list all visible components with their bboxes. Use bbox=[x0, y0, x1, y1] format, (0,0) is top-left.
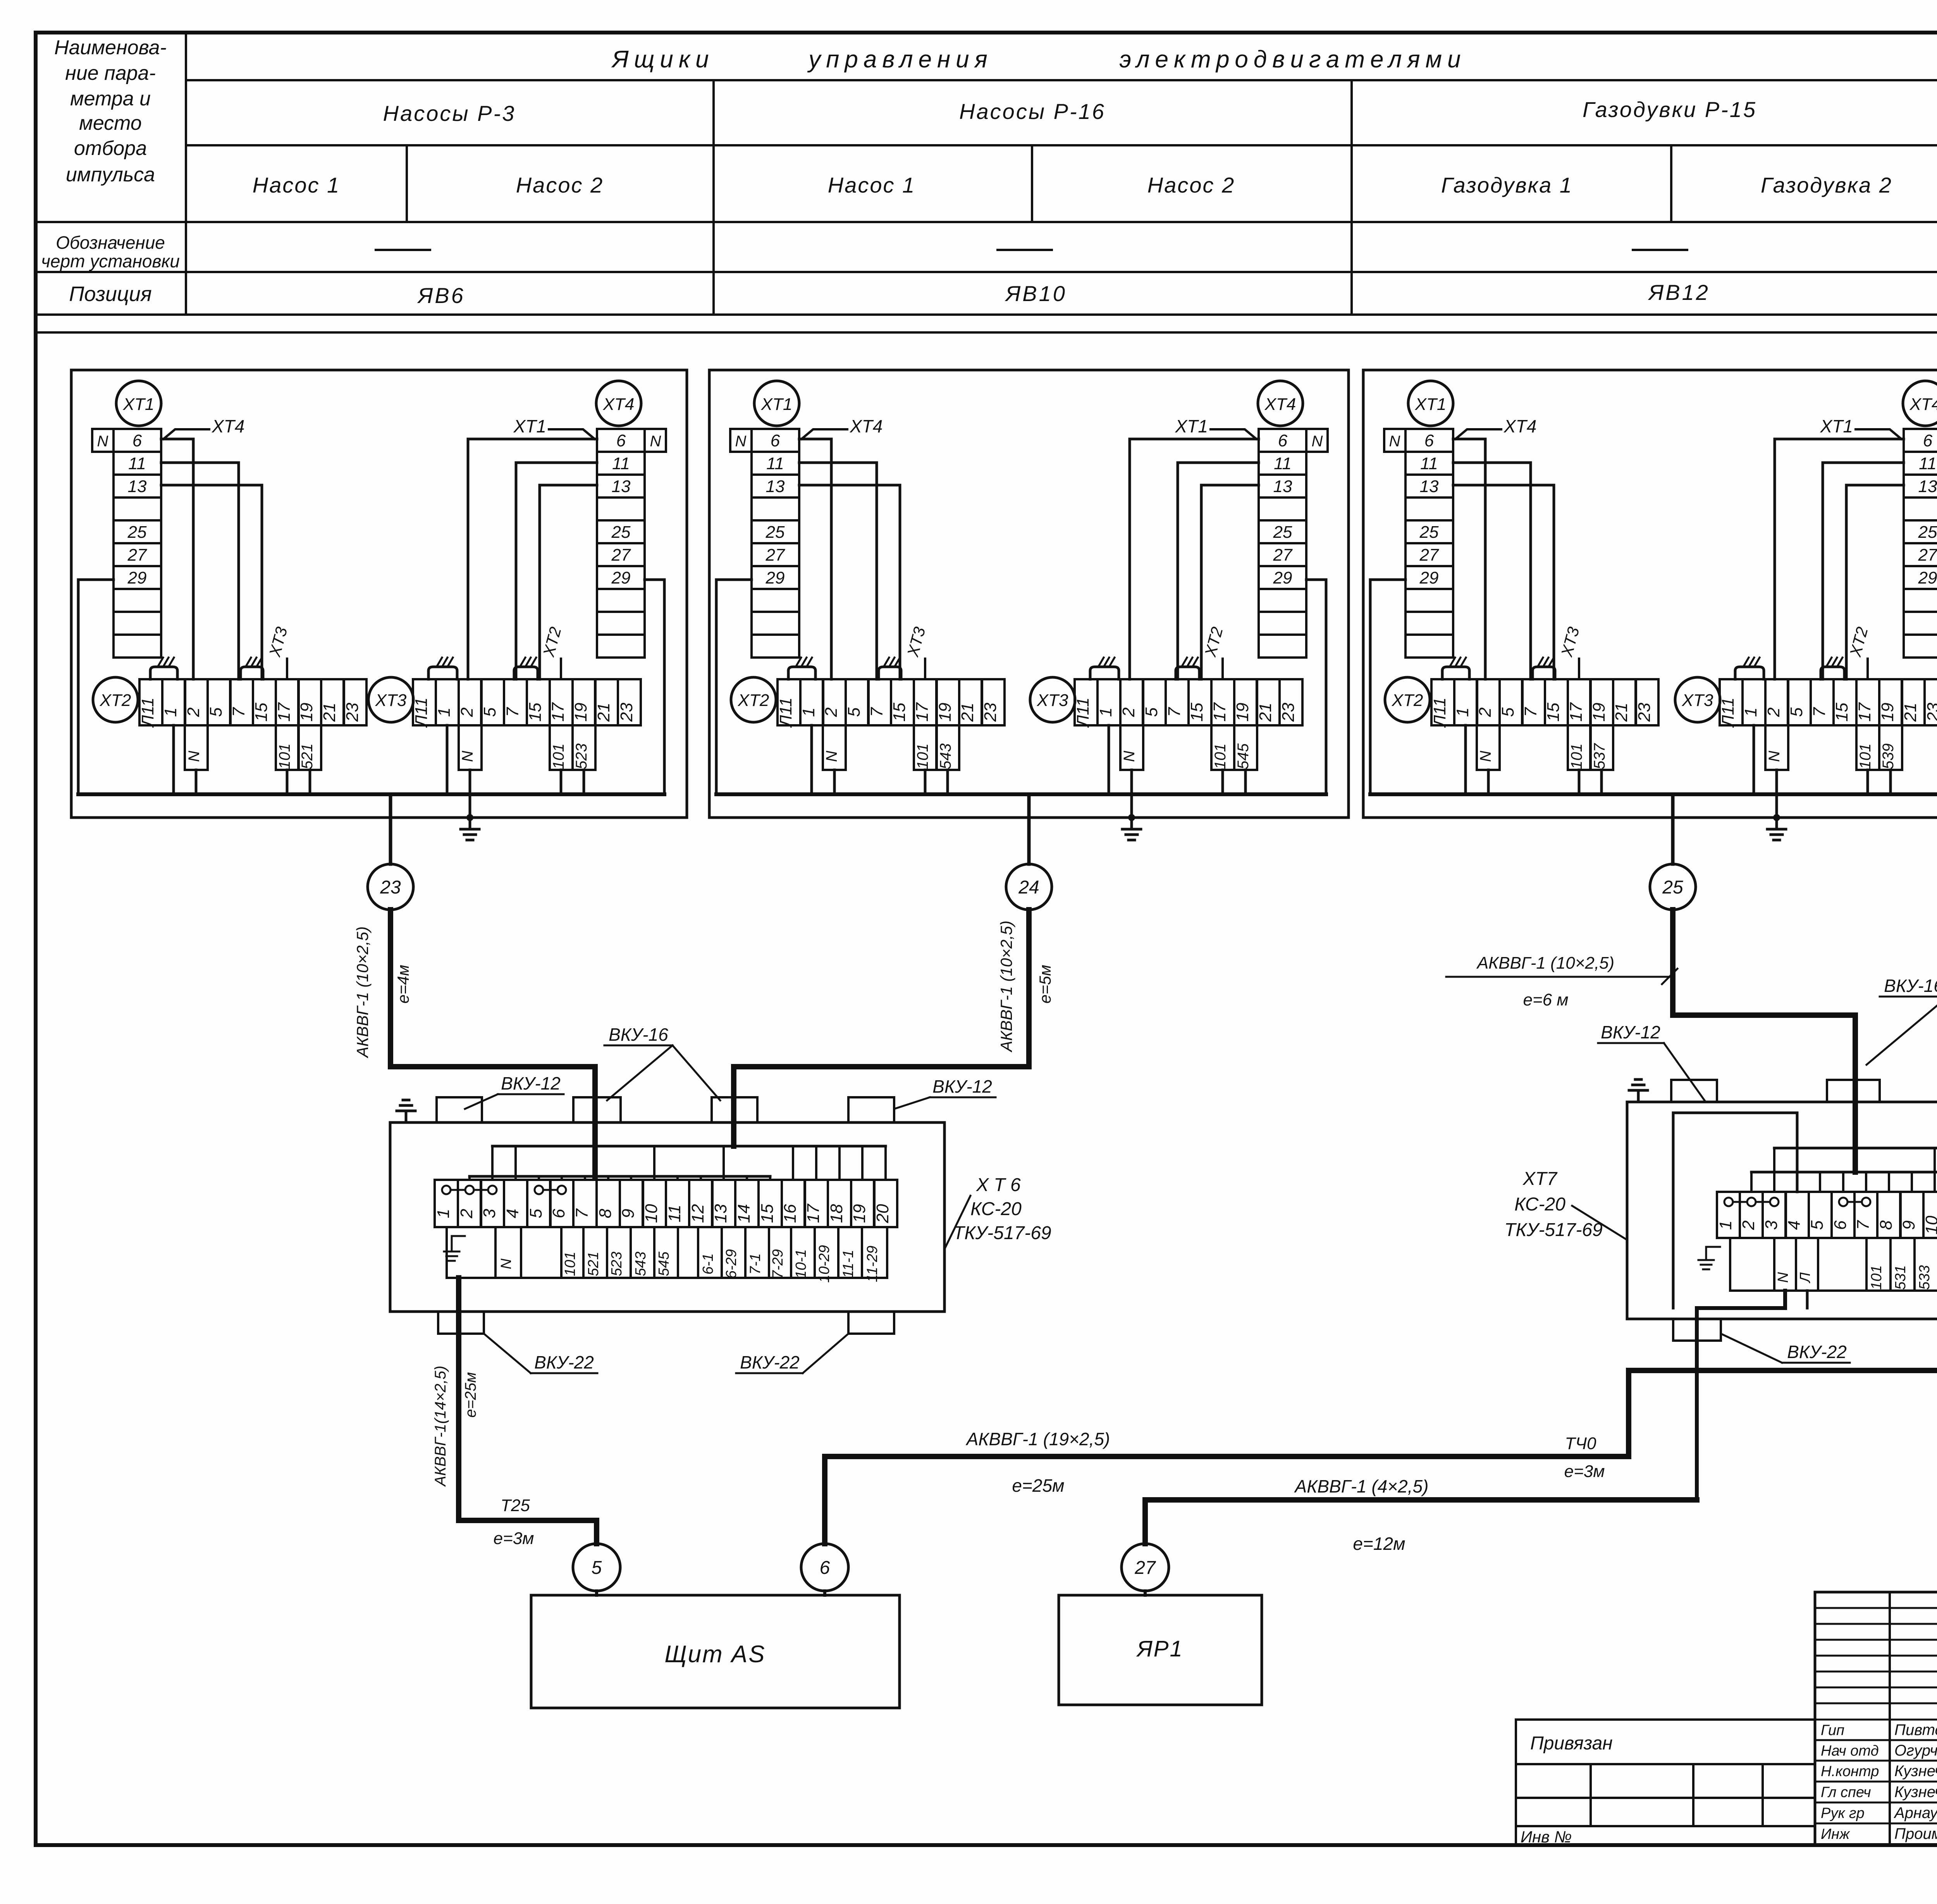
svg-text:27: 27 bbox=[766, 546, 785, 565]
svg-text:7: 7 bbox=[1165, 707, 1184, 717]
svg-text:21: 21 bbox=[1612, 703, 1631, 722]
svg-text:27: 27 bbox=[1134, 1558, 1156, 1578]
svg-text:е=25м: е=25м bbox=[462, 1372, 479, 1418]
svg-text:ХТ4: ХТ4 bbox=[850, 416, 882, 436]
svg-text:15: 15 bbox=[1832, 702, 1851, 721]
svg-text:11: 11 bbox=[766, 454, 784, 473]
svg-text:5: 5 bbox=[1498, 707, 1517, 717]
svg-text:1: 1 bbox=[161, 708, 180, 717]
svg-text:Наименова-: Наименова- bbox=[54, 36, 167, 59]
svg-text:2: 2 bbox=[1764, 708, 1783, 717]
svg-text:N: N bbox=[1389, 433, 1400, 450]
svg-text:импульса: импульса bbox=[66, 164, 155, 186]
svg-text:531: 531 bbox=[1892, 1265, 1909, 1289]
svg-text:7: 7 bbox=[229, 707, 248, 717]
svg-text:7: 7 bbox=[1810, 707, 1829, 717]
svg-text:5: 5 bbox=[592, 1558, 602, 1578]
svg-text:ХТ2: ХТ2 bbox=[1392, 691, 1423, 710]
svg-text:Нач отд: Нач отд bbox=[1821, 1743, 1879, 1759]
svg-text:23: 23 bbox=[1635, 702, 1654, 722]
svg-text:Л11: Л11 bbox=[1719, 697, 1737, 728]
svg-text:6: 6 bbox=[616, 431, 626, 450]
svg-text:8: 8 bbox=[1877, 1220, 1896, 1230]
svg-text:Насос 2: Насос 2 bbox=[1147, 173, 1235, 197]
svg-text:9: 9 bbox=[1899, 1221, 1918, 1230]
svg-text:11: 11 bbox=[1274, 454, 1292, 473]
svg-text:101: 101 bbox=[914, 744, 931, 770]
svg-text:ХТ3: ХТ3 bbox=[1682, 691, 1713, 710]
svg-text:13: 13 bbox=[1273, 477, 1292, 496]
svg-text:КС-20: КС-20 bbox=[970, 1199, 1022, 1219]
svg-text:27: 27 bbox=[1419, 546, 1439, 565]
svg-text:N: N bbox=[1766, 751, 1783, 762]
svg-text:5: 5 bbox=[526, 1209, 545, 1218]
svg-text:ХТ3: ХТ3 bbox=[375, 691, 407, 710]
svg-text:17: 17 bbox=[549, 702, 568, 721]
svg-text:10: 10 bbox=[1922, 1215, 1937, 1234]
svg-text:11: 11 bbox=[1919, 454, 1937, 473]
svg-text:ЯВ6: ЯВ6 bbox=[417, 283, 465, 308]
svg-text:Гл спеч: Гл спеч bbox=[1821, 1784, 1871, 1801]
svg-text:АКВВГ-1(14×2,5): АКВВГ-1(14×2,5) bbox=[432, 1365, 449, 1487]
svg-text:11-29: 11-29 bbox=[864, 1246, 881, 1282]
svg-text:19: 19 bbox=[1878, 703, 1897, 722]
svg-text:Л11: Л11 bbox=[1430, 697, 1449, 728]
svg-text:13: 13 bbox=[612, 477, 631, 496]
svg-text:25: 25 bbox=[1918, 523, 1937, 542]
svg-text:13: 13 bbox=[1420, 477, 1439, 496]
svg-text:ТКУ-517-69: ТКУ-517-69 bbox=[953, 1223, 1051, 1243]
svg-text:19: 19 bbox=[1233, 703, 1252, 722]
svg-text:23: 23 bbox=[1279, 702, 1298, 722]
svg-text:7: 7 bbox=[503, 707, 522, 717]
svg-text:15: 15 bbox=[252, 702, 271, 721]
svg-text:29: 29 bbox=[127, 568, 147, 587]
svg-text:6: 6 bbox=[1278, 431, 1288, 450]
svg-text:101: 101 bbox=[1568, 744, 1585, 770]
svg-text:Газодувки Р-15: Газодувки Р-15 bbox=[1583, 97, 1757, 122]
svg-text:2: 2 bbox=[822, 708, 841, 717]
svg-text:5: 5 bbox=[845, 707, 864, 717]
svg-text:е=5м: е=5м bbox=[1036, 965, 1054, 1004]
svg-text:1: 1 bbox=[1716, 1221, 1735, 1230]
svg-text:ние пара-: ние пара- bbox=[65, 62, 156, 84]
svg-text:2: 2 bbox=[1476, 708, 1495, 717]
svg-text:13: 13 bbox=[766, 477, 785, 496]
svg-text:29: 29 bbox=[1273, 568, 1292, 587]
svg-text:25: 25 bbox=[1419, 523, 1439, 542]
svg-text:1: 1 bbox=[434, 1209, 453, 1218]
svg-text:Л11: Л11 bbox=[776, 697, 795, 728]
svg-text:Л: Л bbox=[1797, 1272, 1813, 1284]
svg-text:5: 5 bbox=[480, 707, 499, 717]
svg-text:ВКУ-12: ВКУ-12 bbox=[1601, 1022, 1660, 1042]
svg-text:ХТ1: ХТ1 bbox=[1820, 416, 1853, 436]
svg-text:17: 17 bbox=[1210, 702, 1229, 721]
svg-text:е=6 м: е=6 м bbox=[1523, 990, 1568, 1009]
svg-text:ХТ3: ХТ3 bbox=[1037, 691, 1068, 710]
svg-text:ВКУ-12: ВКУ-12 bbox=[501, 1073, 561, 1093]
svg-text:N: N bbox=[1121, 751, 1138, 762]
svg-text:7: 7 bbox=[1521, 707, 1540, 717]
svg-text:ВКУ-16: ВКУ-16 bbox=[1884, 976, 1937, 996]
svg-text:ХТ4: ХТ4 bbox=[1909, 395, 1937, 414]
svg-text:7: 7 bbox=[573, 1208, 592, 1218]
svg-text:ТЧ0: ТЧ0 bbox=[1565, 1434, 1597, 1453]
svg-text:Привязан: Привязан bbox=[1530, 1733, 1613, 1754]
svg-text:25: 25 bbox=[1662, 877, 1683, 898]
svg-text:ХТ1: ХТ1 bbox=[123, 395, 155, 414]
svg-text:е=3м: е=3м bbox=[494, 1529, 534, 1548]
svg-text:АКВВГ-1 (4×2,5): АКВВГ-1 (4×2,5) bbox=[1294, 1476, 1429, 1496]
svg-text:6: 6 bbox=[549, 1209, 568, 1218]
svg-text:2: 2 bbox=[457, 1209, 476, 1219]
svg-text:ХТ4: ХТ4 bbox=[1264, 395, 1296, 414]
svg-text:Н.контр: Н.контр bbox=[1821, 1763, 1879, 1780]
svg-text:101: 101 bbox=[562, 1252, 578, 1276]
svg-text:11: 11 bbox=[612, 454, 630, 473]
svg-text:10: 10 bbox=[642, 1204, 661, 1223]
svg-text:101: 101 bbox=[550, 744, 567, 770]
svg-text:13: 13 bbox=[711, 1204, 730, 1223]
svg-text:5: 5 bbox=[1808, 1220, 1827, 1230]
svg-text:ХТ1: ХТ1 bbox=[1415, 395, 1447, 414]
svg-text:13: 13 bbox=[128, 477, 147, 496]
svg-text:15: 15 bbox=[526, 702, 545, 721]
svg-text:КС-20: КС-20 bbox=[1514, 1194, 1565, 1215]
svg-text:4: 4 bbox=[1785, 1221, 1804, 1230]
svg-text:6: 6 bbox=[132, 431, 142, 450]
svg-text:101: 101 bbox=[1868, 1265, 1885, 1289]
svg-text:543: 543 bbox=[633, 1252, 649, 1276]
svg-text:11: 11 bbox=[1420, 454, 1438, 473]
svg-text:7: 7 bbox=[867, 707, 886, 717]
svg-text:17: 17 bbox=[275, 702, 294, 721]
svg-text:N: N bbox=[823, 751, 840, 762]
svg-text:15: 15 bbox=[758, 1204, 777, 1223]
svg-text:521: 521 bbox=[585, 1252, 602, 1276]
svg-text:ВКУ-22: ВКУ-22 bbox=[534, 1352, 594, 1372]
svg-text:5: 5 bbox=[1142, 707, 1161, 717]
svg-text:537: 537 bbox=[1591, 743, 1608, 769]
svg-text:16: 16 bbox=[781, 1204, 800, 1223]
svg-text:е=25м: е=25м bbox=[1012, 1475, 1064, 1496]
svg-text:25: 25 bbox=[766, 523, 785, 542]
svg-text:Обозначение: Обозначение bbox=[56, 232, 165, 253]
svg-text:543: 543 bbox=[937, 744, 954, 770]
svg-text:Пивторак: Пивторак bbox=[1894, 1722, 1937, 1739]
svg-text:Л11: Л11 bbox=[1073, 697, 1092, 728]
svg-text:е=4м: е=4м bbox=[394, 965, 412, 1004]
svg-text:15: 15 bbox=[890, 702, 909, 721]
svg-text:черт установки: черт установки bbox=[41, 251, 180, 271]
svg-text:Х Т 6: Х Т 6 bbox=[976, 1175, 1021, 1195]
svg-text:29: 29 bbox=[766, 568, 785, 587]
svg-text:6: 6 bbox=[820, 1558, 830, 1578]
svg-text:Щит АS: Щит АS bbox=[664, 1641, 766, 1668]
svg-text:21: 21 bbox=[594, 703, 613, 722]
svg-text:АКВВГ-1 (10×2,5): АКВВГ-1 (10×2,5) bbox=[353, 926, 372, 1059]
svg-text:5: 5 bbox=[206, 707, 225, 717]
svg-text:17: 17 bbox=[1855, 702, 1874, 721]
svg-text:15: 15 bbox=[1544, 702, 1563, 721]
svg-text:Инж: Инж bbox=[1821, 1826, 1850, 1842]
svg-text:15: 15 bbox=[1187, 702, 1206, 721]
svg-text:Газодувка 1: Газодувка 1 bbox=[1441, 173, 1573, 197]
svg-text:25: 25 bbox=[611, 523, 631, 542]
svg-text:539: 539 bbox=[1880, 744, 1897, 770]
svg-text:ЯВ10: ЯВ10 bbox=[1005, 281, 1067, 306]
svg-text:2: 2 bbox=[458, 708, 477, 717]
svg-text:Рук гр: Рук гр bbox=[1821, 1805, 1865, 1821]
svg-text:Ящики: Ящики bbox=[611, 46, 714, 73]
svg-text:1: 1 bbox=[799, 708, 818, 717]
svg-text:ХТ4: ХТ4 bbox=[603, 395, 635, 414]
svg-text:21: 21 bbox=[1256, 703, 1275, 722]
svg-text:521: 521 bbox=[299, 744, 316, 770]
svg-text:ЯВ12: ЯВ12 bbox=[1648, 280, 1710, 305]
svg-text:27: 27 bbox=[1918, 546, 1937, 565]
svg-text:1: 1 bbox=[1453, 708, 1472, 717]
svg-text:101: 101 bbox=[276, 744, 293, 770]
svg-text:18: 18 bbox=[827, 1204, 846, 1223]
svg-text:7-1: 7-1 bbox=[747, 1253, 764, 1275]
svg-text:Арнаутова: Арнаутова bbox=[1894, 1804, 1937, 1821]
svg-text:21: 21 bbox=[958, 703, 977, 722]
svg-text:N: N bbox=[459, 751, 476, 762]
svg-text:29: 29 bbox=[611, 568, 631, 587]
svg-text:АКВВГ-1 (10×2,5): АКВВГ-1 (10×2,5) bbox=[997, 921, 1015, 1053]
svg-text:Насос 1: Насос 1 bbox=[253, 173, 340, 197]
svg-text:21: 21 bbox=[1901, 703, 1920, 722]
svg-text:19: 19 bbox=[850, 1204, 869, 1223]
svg-text:13: 13 bbox=[1918, 477, 1937, 496]
svg-text:20: 20 bbox=[873, 1204, 892, 1223]
svg-text:11: 11 bbox=[665, 1205, 684, 1222]
svg-text:6: 6 bbox=[1923, 431, 1933, 450]
svg-text:N: N bbox=[498, 1258, 514, 1269]
svg-text:25: 25 bbox=[1273, 523, 1292, 542]
svg-text:ВКУ-16: ВКУ-16 bbox=[609, 1024, 668, 1045]
svg-text:ХТ2: ХТ2 bbox=[738, 691, 769, 710]
svg-text:19: 19 bbox=[571, 703, 590, 722]
svg-text:N: N bbox=[97, 433, 108, 450]
svg-text:3: 3 bbox=[1762, 1220, 1781, 1230]
svg-text:Газодувка 2: Газодувка 2 bbox=[1761, 173, 1892, 197]
svg-text:523: 523 bbox=[609, 1252, 625, 1276]
svg-text:545: 545 bbox=[656, 1251, 672, 1276]
svg-text:ВКУ-22: ВКУ-22 bbox=[740, 1352, 800, 1372]
svg-text:3: 3 bbox=[480, 1209, 499, 1218]
svg-text:17: 17 bbox=[1567, 702, 1586, 721]
svg-text:АКВВГ-1 (10×2,5): АКВВГ-1 (10×2,5) bbox=[1476, 954, 1614, 973]
svg-text:N: N bbox=[1775, 1272, 1791, 1283]
svg-text:е=3м: е=3м bbox=[1564, 1462, 1605, 1481]
svg-text:1: 1 bbox=[435, 708, 454, 717]
svg-text:12: 12 bbox=[688, 1204, 707, 1223]
svg-text:101: 101 bbox=[1857, 744, 1874, 770]
svg-text:29: 29 bbox=[1419, 568, 1439, 587]
svg-text:6: 6 bbox=[1424, 431, 1434, 450]
svg-text:27: 27 bbox=[611, 546, 631, 565]
svg-text:24: 24 bbox=[1018, 877, 1039, 898]
svg-text:27: 27 bbox=[1273, 546, 1293, 565]
svg-text:ВКУ-22: ВКУ-22 bbox=[1787, 1342, 1847, 1362]
svg-text:2: 2 bbox=[1119, 708, 1138, 717]
svg-text:19: 19 bbox=[297, 703, 316, 722]
svg-text:25: 25 bbox=[127, 523, 147, 542]
svg-text:N: N bbox=[186, 751, 203, 762]
svg-text:11: 11 bbox=[128, 454, 146, 473]
svg-text:19: 19 bbox=[936, 703, 955, 722]
svg-text:10-1: 10-1 bbox=[793, 1249, 809, 1279]
svg-text:9: 9 bbox=[619, 1209, 638, 1218]
svg-text:2: 2 bbox=[1739, 1221, 1758, 1230]
svg-text:101: 101 bbox=[1212, 744, 1229, 770]
svg-text:Огурчов: Огурчов bbox=[1894, 1742, 1937, 1759]
svg-text:ХТ2: ХТ2 bbox=[100, 691, 131, 710]
svg-text:ВКУ-12: ВКУ-12 bbox=[932, 1076, 992, 1097]
svg-text:ЯР1: ЯР1 bbox=[1136, 1636, 1183, 1661]
svg-text:ХТ7: ХТ7 bbox=[1522, 1169, 1558, 1189]
svg-text:Инв №: Инв № bbox=[1521, 1828, 1572, 1846]
svg-text:Кузнечов: Кузнечов bbox=[1894, 1783, 1937, 1801]
svg-text:Насосы Р-16: Насосы Р-16 bbox=[959, 99, 1106, 124]
svg-text:ХТ1: ХТ1 bbox=[513, 416, 546, 436]
svg-text:8: 8 bbox=[596, 1209, 615, 1218]
svg-text:545: 545 bbox=[1235, 743, 1252, 769]
svg-text:Насос 2: Насос 2 bbox=[516, 173, 604, 197]
svg-text:17: 17 bbox=[804, 1203, 823, 1223]
svg-text:Л11: Л11 bbox=[138, 697, 157, 728]
svg-text:Л11: Л11 bbox=[412, 697, 431, 728]
svg-text:523: 523 bbox=[573, 744, 590, 770]
svg-text:Насосы Р-3: Насосы Р-3 bbox=[383, 101, 516, 126]
svg-text:ХТ4: ХТ4 bbox=[1503, 416, 1536, 436]
svg-text:23: 23 bbox=[380, 877, 401, 898]
svg-text:6-1: 6-1 bbox=[700, 1253, 716, 1275]
svg-text:ХТ4: ХТ4 bbox=[212, 416, 244, 436]
svg-text:ХТ1: ХТ1 bbox=[761, 395, 793, 414]
svg-text:Т25: Т25 bbox=[501, 1496, 530, 1515]
svg-text:е=12м: е=12м bbox=[1353, 1534, 1405, 1554]
svg-text:метра и: метра и bbox=[70, 88, 151, 110]
svg-text:17: 17 bbox=[913, 702, 932, 721]
svg-text:N: N bbox=[1312, 433, 1323, 450]
svg-text:место: место bbox=[79, 112, 142, 134]
svg-text:7-29: 7-29 bbox=[770, 1249, 786, 1279]
svg-text:6-29: 6-29 bbox=[723, 1249, 740, 1279]
svg-text:Проимкина: Проимкина bbox=[1894, 1825, 1937, 1842]
svg-text:533: 533 bbox=[1916, 1265, 1933, 1289]
svg-text:23: 23 bbox=[343, 702, 362, 722]
svg-text:N: N bbox=[735, 433, 747, 450]
svg-text:отбора: отбора bbox=[74, 137, 147, 160]
svg-text:10-29: 10-29 bbox=[816, 1245, 833, 1283]
svg-text:Насос 1: Насос 1 bbox=[828, 173, 915, 197]
svg-text:19: 19 bbox=[1590, 703, 1608, 722]
svg-text:14: 14 bbox=[735, 1204, 753, 1223]
svg-text:23: 23 bbox=[1924, 702, 1937, 722]
svg-text:4: 4 bbox=[503, 1209, 522, 1218]
svg-text:N: N bbox=[1477, 751, 1494, 762]
svg-text:6: 6 bbox=[771, 431, 780, 450]
svg-text:ТКУ-517-69: ТКУ-517-69 bbox=[1504, 1220, 1603, 1240]
svg-text:6: 6 bbox=[1831, 1220, 1850, 1230]
svg-text:23: 23 bbox=[981, 702, 1000, 722]
svg-text:управления: управления bbox=[807, 46, 993, 73]
svg-text:N: N bbox=[650, 433, 661, 450]
svg-text:ХТ1: ХТ1 bbox=[1175, 416, 1208, 436]
svg-text:электродвигателями: электродвигателями bbox=[1119, 46, 1466, 73]
svg-text:Кузнечов: Кузнечов bbox=[1894, 1763, 1937, 1780]
svg-text:Гип: Гип bbox=[1821, 1722, 1844, 1739]
svg-text:1: 1 bbox=[1096, 708, 1115, 717]
svg-text:Позиция: Позиция bbox=[69, 282, 151, 306]
svg-text:11-1: 11-1 bbox=[840, 1250, 857, 1278]
svg-text:29: 29 bbox=[1918, 568, 1937, 587]
svg-text:5: 5 bbox=[1787, 707, 1806, 717]
svg-text:27: 27 bbox=[127, 546, 147, 565]
svg-text:21: 21 bbox=[320, 703, 339, 722]
svg-text:2: 2 bbox=[184, 708, 203, 717]
svg-text:23: 23 bbox=[617, 702, 636, 722]
svg-text:АКВВГ-1 (19×2,5): АКВВГ-1 (19×2,5) bbox=[965, 1429, 1110, 1449]
svg-text:1: 1 bbox=[1741, 708, 1760, 717]
svg-text:7: 7 bbox=[1854, 1220, 1873, 1230]
